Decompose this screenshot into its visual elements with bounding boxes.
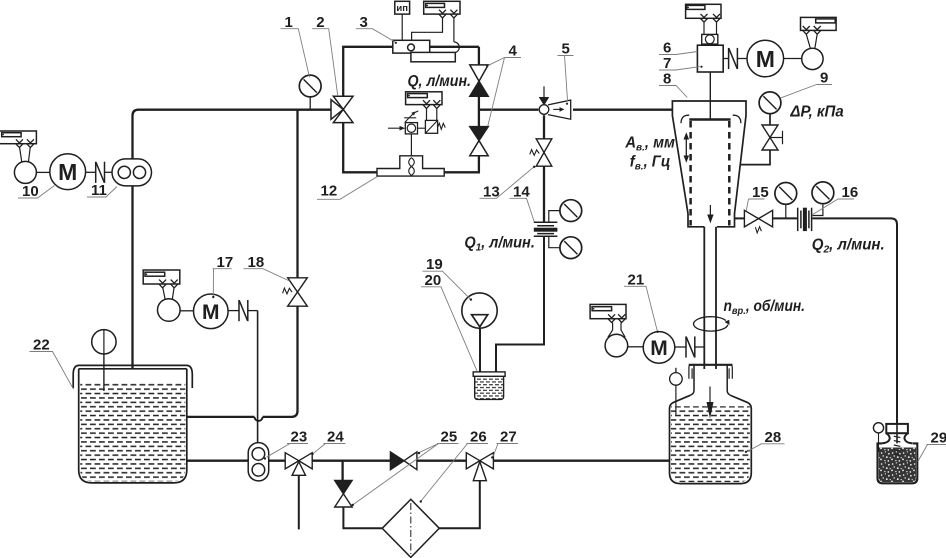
wire between check valves 4 [478,96,480,127]
wire transmitter6 leads [704,22,717,34]
bottle 28 body [670,395,752,483]
rotation ellipse of stirrer [694,317,730,331]
svg-text:3: 3 [360,14,368,31]
transmitter box of motor 10 [0,131,36,144]
gauge after orifice 16 [812,182,834,204]
thermometer of bottle 28 [670,368,683,415]
coupling 21-shaft [686,336,695,357]
pickup circle of motor 10 [14,161,36,183]
wire tank suction line with jump [255,417,263,421]
wire coupling to stirrer shaft [695,346,705,348]
svg-text:M: M [58,159,77,185]
wire IP box to sensor 3 [401,14,403,40]
coupling 17-23 [239,300,248,321]
svg-text:10: 10 [22,183,39,200]
wire ejector down to valve 13 [543,115,545,139]
svg-text:9: 9 [820,70,828,87]
bottle 29 body [878,443,918,483]
pilot valve box 12 [425,120,437,133]
svg-text:7: 7 [663,55,671,72]
wire gauge9 stem [769,114,771,125]
wire funnel 19 to beaker [479,329,481,372]
gear pump 11 [112,159,152,186]
signal arrows of transmitter 17 [159,280,178,288]
wire main line to ejector 5 [479,109,539,111]
leader label 15 [746,199,764,211]
funnel meter 19 [462,293,497,328]
wire shaft tube right wall [715,227,717,369]
lower gauge at orifice 14 [560,237,582,259]
relief valve 18 [283,278,308,306]
pickup circle of motor 17 [158,299,181,322]
motor M of vibrator [747,40,784,77]
wire valve27 to bottle28 [493,460,669,462]
tank 22 liquid [80,383,185,481]
wire ejector to cyclone [573,109,672,111]
wire motor21 to coupling [675,346,686,348]
wire motor to tachometer pickup [784,58,802,60]
svg-text:14: 14 [513,183,530,200]
leader label 1 [281,29,310,77]
signal arrows of tachometer transmitter [803,26,821,34]
svg-text:28: 28 [765,429,782,446]
leader label 8 [659,86,687,98]
inner vibrating tube of cyclone [689,120,730,226]
suspension arcs in cyclone [681,115,741,123]
wire main air line left segment [133,110,332,391]
leader label 11 [87,187,117,198]
bottle 28 liquid [671,406,750,482]
wire gauge to pipe after valve15 [785,205,787,219]
leader end dots [212,65,747,507]
funnel neck of pickup 21 [608,323,625,338]
wire display3 right lead with jump over pipe [412,18,460,61]
motor M 10 [50,154,86,190]
gauge before orifice 16 [775,183,797,205]
upper gauge at orifice 14 [560,200,582,222]
orifice flowmeter 16 [798,208,812,231]
svg-text:M: M [202,301,220,324]
svg-text:15: 15 [752,184,769,201]
inlet arrow of regulator [388,126,405,131]
svg-text:Q2, л/мин.: Q2, л/мин. [812,237,885,256]
wire check25 to valve27 [417,460,466,462]
check valve 25 on main pipe [390,452,417,470]
leader label 13 [480,167,535,199]
leader label 16 [813,199,854,215]
leader label 27 [493,444,518,457]
wire below check valves to manifold [444,155,479,172]
leader label 6 [659,52,697,55]
leader label 29 [918,445,946,462]
beaker 20 [473,372,505,400]
svg-text:11: 11 [91,182,107,199]
wire motor10 to coupling [86,171,96,173]
leader label 22 [30,352,74,390]
wire shaft tube into bottle 28 left wall [703,227,705,369]
wire pickup to motor 21 [628,346,644,348]
svg-text:ип: ип [396,3,408,14]
throttle spindle inside manifold [409,158,415,176]
pressure gauge 1 [299,75,321,110]
PIPES [133,47,898,530]
svg-text:20: 20 [425,272,442,289]
wire gauge to orifice16 [813,204,823,215]
svg-text:29: 29 [931,430,946,447]
wire valve24 to check25 [312,460,390,462]
throttle valve 15 [744,210,772,233]
three-way valve 27 [466,453,493,481]
wire orifice16 to bottle29 [812,218,897,425]
wire transmitter9 to pickup [806,34,817,48]
signal arrows of display 3 [439,10,457,18]
check valve 25 on bypass [335,481,352,508]
vibration double arrow [684,132,690,162]
leader label 14 [510,198,535,221]
wire transmitter17 to pickup [163,288,174,300]
svg-text:25: 25 [441,429,458,446]
pickup circle of motor 21 [605,334,628,357]
wire check25b to bypass [343,507,382,528]
svg-text:8: 8 [663,71,671,88]
check valve 4 upper [470,65,488,96]
leader label 28 [747,444,785,452]
wire cyclone dP tap [740,150,770,165]
wire orifice14 to lower gauge [549,236,560,247]
leader label 24 [313,444,346,454]
wire cyclone outlet to valve15 [735,217,745,219]
signal arrows of transmitter 6 [701,14,721,22]
gear pump 23 [248,443,269,481]
leader label 3 [356,29,395,42]
wire coupling to shaft [248,310,258,312]
wire filter26 to valve27 riser [439,481,480,529]
tank 22 rim [73,365,192,388]
wire transmitter10 to pickup circle [20,148,31,163]
signal arrows of transmitter 21 [608,314,625,322]
signal arrows of transmitter 10 [16,139,34,147]
stopper circle of bottle 29 [873,423,883,452]
leader label 4 [488,58,522,128]
wire valve15 to orifice16 [773,217,797,219]
leader label 26 [421,444,488,502]
leader label 18 [244,269,290,281]
svg-text:13: 13 [483,183,500,200]
orifice flowmeter 14 [534,222,558,236]
leader label 5 [558,56,574,102]
leader label 23 [267,444,309,458]
leader label 2 [312,29,338,96]
bearing box 6 [702,34,718,44]
thermometer of tank 22 [92,330,116,391]
leader label 19 [423,271,471,299]
motor M 21 [643,332,675,364]
transmitter box of motor 21 [590,304,626,318]
outlet arrow in cyclone [707,205,713,223]
wire valve2 top to loop [343,47,393,97]
svg-text:M: M [650,337,668,360]
flow arrow into bottle 28 [707,387,714,419]
leader label 20 [421,287,477,372]
differential pressure gauge 9 [759,92,781,114]
svg-text:6: 6 [663,40,671,57]
svg-text:16: 16 [842,184,859,201]
needle valve 13 [530,139,552,166]
IP box [395,1,410,14]
svg-text:23: 23 [291,429,308,446]
manifold block 12 [377,156,444,176]
turbine flow sensor 3 body [393,40,456,62]
motor M 17 [194,294,229,329]
svg-text:21: 21 [628,271,645,288]
three-way valve 24 [285,453,312,476]
leader label 25 [353,444,458,505]
coupling 10-11 [96,162,105,183]
leader label 7 [659,67,700,70]
svg-text:4: 4 [509,42,518,59]
wire motor17 to coupling [228,310,239,312]
coupling of vibrator motor [723,48,747,69]
wire loop right down [478,47,480,65]
wire valve24 drain stem [298,475,300,529]
svg-text:Aв., мм: Aв., мм [624,135,675,154]
wire tee down to check25b [341,461,343,481]
svg-text:ΔP, кПа: ΔP, кПа [789,104,844,121]
flow arrow inside ejector 5 [553,103,568,112]
tachometer pickup circle [802,48,823,69]
wire display3 left lead [412,18,443,40]
bottle 29 contents [879,448,916,483]
ejector 5 nozzle body [539,86,571,119]
three-way valve 2 [331,96,353,122]
svg-text:18: 18 [248,254,265,271]
svg-text:M: M [756,46,775,72]
dP shutoff valve [762,125,783,150]
pressure regulator [405,123,425,134]
tank 22 body [79,369,187,483]
bottle 29 neck and cap [882,424,913,444]
wire pickup to motor 17 [180,310,193,312]
wire loop top through sensor3 [430,46,479,48]
svg-text:2: 2 [316,14,324,31]
wire valve13 to orifice 14 [543,166,545,222]
filter 26 [382,499,439,557]
transmitter box 6 [686,4,721,18]
vibrator drive box 7 [697,45,723,119]
wire bottom main pipe tank to pump23 [177,460,248,462]
display box of sensor 3 [424,1,460,14]
signal arrows of transmitter 12 [423,100,440,108]
leader label 21 [624,286,657,331]
svg-text:24: 24 [327,429,344,446]
wire transmitter12 to pilot box [427,108,437,120]
wire pickup to motor 10 [36,171,50,173]
cyclone vessel 8 outer shell [672,101,746,227]
check valve 4 lower [470,127,488,156]
svg-text:27: 27 [500,429,517,446]
svg-text:1: 1 [285,14,293,31]
leader label 10 [18,186,55,199]
bottle 28 neck [689,365,733,396]
wire valve18 to tank suction corner [263,306,298,417]
svg-text:19: 19 [426,256,443,273]
wire orifice14 to upper gauge [549,211,560,222]
transmitter box of motor 17 [143,270,180,284]
leader label 12 [317,177,377,200]
svg-text:12: 12 [321,182,338,199]
svg-text:17: 17 [217,254,234,271]
coil of dip tube in bottle 29 [894,436,901,455]
spring of pilot box [438,123,446,129]
svg-text:Q, л/мин.: Q, л/мин. [408,73,472,90]
transmitter box of regulator 12 [406,92,442,105]
svg-text:22: 22 [33,337,50,354]
svg-text:5: 5 [562,40,570,57]
leader label 9 [781,85,832,98]
svg-text:Q1, л/мин.: Q1, л/мин. [464,235,535,254]
wire branch to valve 18 [296,110,298,278]
wire pump23 to valve24 [269,460,286,462]
wire motor17 shaft to pump23 [257,311,259,443]
adjuster arrow of regulator [404,111,418,123]
wire regulator to manifold 12 [410,134,412,156]
wire orifice14 down to beaker [496,236,544,372]
wire valve2 bottom to manifold left [343,122,377,172]
leader label 17 [213,269,232,297]
svg-text:26: 26 [470,429,487,446]
wire pipe inside bottle29 neck [896,425,898,452]
wire coupling to pump 11 [105,171,113,173]
transmitter box of tachometer [801,17,837,30]
